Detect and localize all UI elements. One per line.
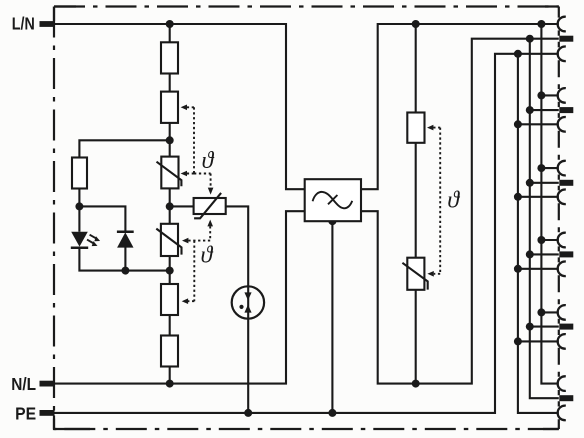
wire PE feed with riser to PE distribution [55,54,559,413]
outlet 6 PE contact (arc) [558,406,566,421]
outlet 4 neutral contact (block) [559,251,573,257]
wire indicator return to chain [79,248,169,271]
thermal link arrow into RV1 [181,171,187,177]
LED V5 (status indicator) [71,232,88,247]
terminal L/N block [40,21,55,27]
junction filter midpoint [328,217,336,225]
wire diode to return [124,248,126,271]
thermal link arrow into RV3 top [208,188,214,195]
outlet 4 PE contact (arc) [558,261,566,276]
wire PE bus (outlet bottom contacts) [518,54,559,413]
wire L bus to outlet 3 top contact [541,167,558,169]
diode V6 (antiparallel) [117,230,134,233]
wire branch to indicator block [79,140,169,231]
svg-text:N/L: N/L [11,374,36,394]
wire series varistor to spark gap and PE [226,206,249,413]
outlet 6 line contact (arc) [558,376,566,391]
wire filter output L to top rail [361,24,559,189]
resistor R5 (indicator series) [72,158,87,189]
wire N bus to outlet 2 middle contact [530,109,559,111]
enclosure border top (dash-dot) [54,5,559,7]
junction L bus - outlet 5 [537,308,545,316]
outlet 3 PE contact (arc) [558,190,566,205]
wire indicator branch to diode [79,206,125,231]
junction N bus - outlet 5 [526,323,534,331]
junction L/N rail - protection chain [166,20,174,28]
thermal link arrow into R6 [427,125,433,131]
thermal link arrow out of RV3 bottom [207,220,213,227]
varistor RV1 [161,157,178,189]
outlet 2 line contact (arc) [558,88,566,103]
outlet 5 line contact (arc) [558,305,566,320]
junction diode return [121,267,129,275]
svg-text:ϑ: ϑ [447,188,460,214]
outlet 2 neutral contact (block) [559,107,573,113]
outlet 3 neutral contact (block) [559,180,573,186]
outlet 5 PE contact (arc) [558,334,566,349]
resistor R6 (right chain) [407,113,424,143]
svg-text:L/N: L/N [12,14,35,34]
junction PE bus - outlet 2 [514,120,522,128]
wire N bus to outlet 3 middle contact [530,182,559,184]
wire filter midpoint to PE [331,221,333,413]
junction PE rail - filter midpoint [328,409,336,417]
outlet 6 neutral contact (block) [559,395,573,401]
wire L bus to outlet 5 top contact [541,311,558,313]
junction N bus - outlet 4 [526,250,534,258]
junction PE rail - PE bus [514,50,522,58]
thermal link dotted path RV3-RV2-R3 (theta 2 group) [187,226,210,301]
thermal link dotted path R6-RV4 (theta 3 group) [433,128,440,274]
junction PE bus - outlet 3 [514,193,522,201]
junction chain - series varistor branch [166,202,174,210]
junction PE bus - outlet 5 [514,337,522,345]
resistor R4 [161,336,178,367]
wire N bus to outlet 4 middle contact [530,253,559,255]
wire PE bus to outlet 4 bottom contact [518,268,559,270]
junction PE rail - spark gap [244,409,252,417]
thermal link arrow into R2 [181,105,187,111]
wire chain to series varistor [170,205,194,207]
wire PE bus to outlet 5 bottom contact [518,340,559,342]
junction L rail - varistor chain [412,20,420,28]
junction L rail - L bus [537,20,545,28]
junction chain - indicator branch [166,136,174,144]
wire PE bus to outlet 2 bottom contact [518,123,559,125]
mains filter U1 (box with sine symbol) [305,179,361,221]
junction indicator - diode branch [75,202,83,210]
svg-text:PE: PE [15,403,36,423]
wire protection chain (right column) [415,24,417,384]
junction N bus - outlet 3 [526,179,534,187]
spark gap F1 (gas discharge tube) [232,286,264,318]
svg-text:ϑ: ϑ [201,242,214,268]
resistor R3 [161,284,178,315]
wire protection chain (left column) [169,24,171,384]
wire N bus to outlet 5 middle contact [530,326,559,328]
junction N bus - outlet 2 [526,106,534,114]
varistor RV3 (series, horizontal) [194,198,226,214]
thermal link arrow into R3 [182,298,188,304]
enclosure border bottom (dash-dot) [54,428,559,430]
outlet 1 neutral contact (block) [559,36,573,42]
junction chain - indicator return [166,267,174,275]
resistor R2 [161,92,178,123]
outlet 3 line contact (arc) [558,161,566,176]
thermal link dotted path R2-RV1-RV3 (theta 1 group) [187,107,211,188]
junction L bus - outlet 2 [537,91,545,99]
wire L bus to outlet 4 top contact [541,239,558,241]
wire N bus (outlet middle contacts) [530,39,559,399]
enclosure border right (dash-dot segments between terminal groups) [558,60,560,377]
outlet 1 PE contact (arc) [558,47,566,62]
junction L bus - outlet 3 [537,164,545,172]
thermal link arrow into RV4 [427,271,433,277]
junction chain - N/L rail [166,380,174,388]
junction L bus - outlet 4 [537,236,545,244]
wire filter output N rail and riser [361,39,559,384]
wire L bus (outlet top contacts) [541,24,558,384]
varistor RV4 (right chain) [407,258,424,290]
wire L bus to outlet 2 top contact [541,94,558,96]
wire N/L feed to filter input (bottom) [55,211,305,383]
outlet 1 line contact (arc) [558,17,566,32]
enclosure border left (dash-dot) [53,7,55,430]
junction varistor chain - N rail [412,380,420,388]
terminal N/L block [40,381,55,387]
terminal PE block [40,410,55,416]
outlet 4 line contact (arc) [558,233,566,248]
enclosure border right (solid segments at terminal groups) [558,7,560,430]
varistor RV2 [161,224,178,256]
wire L/N feed to filter input (top) [55,24,305,189]
outlet 5 neutral contact (block) [559,324,573,330]
junction N rail - N bus [526,35,534,43]
outlet 2 PE contact (arc) [558,117,566,132]
svg-text:ϑ: ϑ [202,148,215,174]
wire PE bus to outlet 3 bottom contact [518,196,559,198]
junction PE bus - outlet 4 [514,265,522,273]
resistor R1 [161,42,178,73]
thermal link arrow into RV2 [182,238,188,244]
